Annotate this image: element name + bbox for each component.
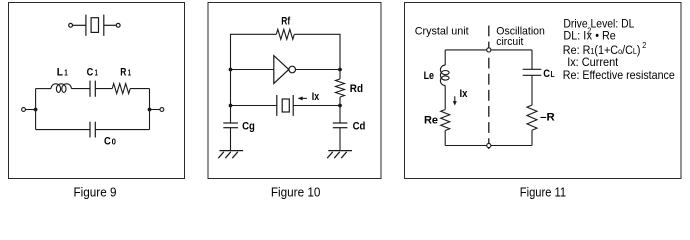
svg-text:Drive Level: DL: Drive Level: DL xyxy=(563,17,634,31)
label L1 xyxy=(57,67,68,79)
svg-text:C: C xyxy=(543,68,550,80)
resistor R1 xyxy=(112,84,130,94)
capacitor CL xyxy=(523,69,542,75)
node crystal row left xyxy=(229,104,233,108)
panel frame Figure 11 xyxy=(405,3,682,179)
wire right vertical branch xyxy=(149,89,151,130)
wire crystal row right xyxy=(293,105,340,107)
svg-text:Le: Le xyxy=(424,70,434,82)
svg-text:Cd: Cd xyxy=(353,120,366,132)
dashed boundary line xyxy=(488,26,490,152)
inverter output bubble xyxy=(289,66,296,73)
svg-text:R: R xyxy=(120,67,126,79)
node inverter output rail xyxy=(338,68,342,72)
svg-text:Ix: Current: Ix: Current xyxy=(567,55,619,69)
label C0 xyxy=(104,136,116,148)
svg-text:Figure 10: Figure 10 xyxy=(271,184,321,199)
svg-text:L: L xyxy=(551,70,555,79)
wire Cd to ground xyxy=(339,128,341,151)
wire node to right terminal xyxy=(150,109,161,111)
arrow Ix (Figure 11, downward) xyxy=(453,96,457,105)
panel frame Figure 9 xyxy=(9,3,185,179)
wire left vertical branch xyxy=(35,89,37,130)
wire -R to bottom rail xyxy=(531,130,533,145)
wire Le to Re xyxy=(444,86,446,110)
capacitor C1 xyxy=(90,81,95,97)
ground (right, Figure 10) xyxy=(327,151,352,159)
svg-text:Figure 9: Figure 9 xyxy=(74,184,117,199)
svg-text:circuit: circuit xyxy=(496,36,523,48)
label Oscillation circuit xyxy=(496,26,545,48)
wire top rail left part xyxy=(231,34,277,69)
svg-text:Ix: Ix xyxy=(460,88,469,100)
label R1 xyxy=(120,67,131,79)
node bottom (open) xyxy=(487,143,491,147)
wire left rail down to Cg xyxy=(230,106,232,124)
resistor -R xyxy=(527,105,537,130)
wire left branch top xyxy=(444,50,446,65)
svg-text:1: 1 xyxy=(64,69,68,78)
wire CL to -R xyxy=(531,75,533,105)
svg-text:Rd: Rd xyxy=(350,83,363,95)
svg-text:1: 1 xyxy=(128,69,132,78)
svg-text:C: C xyxy=(87,67,94,79)
node crystal row right xyxy=(338,104,342,108)
node inverter input rail xyxy=(229,68,233,72)
inductor Le xyxy=(440,65,449,85)
svg-text:Crystal unit: Crystal unit xyxy=(415,26,469,38)
terminal right (Figure 9) xyxy=(160,108,164,112)
svg-text:–R: –R xyxy=(540,112,555,124)
wire C1 to R1 xyxy=(95,88,112,90)
wire inductor to C1 xyxy=(71,88,90,90)
wire top rail (Figure 11) xyxy=(445,49,532,51)
svg-text:Re: Effective resistance: Re: Effective resistance xyxy=(563,68,675,82)
wire Cg to ground xyxy=(230,128,232,151)
wire top rail right part xyxy=(294,34,340,69)
capacitor C0 xyxy=(90,122,95,138)
wire right rail Rd section top xyxy=(339,70,341,80)
ground (left, Figure 10) xyxy=(218,151,243,159)
wire left rail inverter row to crystal row xyxy=(230,70,232,106)
wire left terminal to node xyxy=(25,109,35,111)
terminal left (Figure 9) xyxy=(22,108,26,112)
wire top branch left segment xyxy=(36,88,51,90)
node top (open) xyxy=(487,48,491,52)
wire right branch top xyxy=(531,50,533,69)
wire Re to bottom rail xyxy=(444,131,446,146)
node left junction xyxy=(34,108,38,112)
op-amp inverter U1 triangle xyxy=(274,56,289,84)
wire crystal row left xyxy=(231,105,277,107)
crystal X1 (Figure 10) xyxy=(277,95,293,116)
svg-text:Cg: Cg xyxy=(242,120,255,132)
svg-text:C: C xyxy=(104,136,111,148)
capacitor Cg xyxy=(223,123,238,128)
wire bottom branch right segment xyxy=(95,129,149,131)
wire R1 to right vertical xyxy=(130,88,149,90)
svg-text:Re: Re xyxy=(424,114,438,126)
wire bottom rail (Figure 11) xyxy=(445,145,532,147)
label CL xyxy=(543,68,554,80)
svg-text:Ix: Ix xyxy=(312,91,320,103)
capacitor Cd xyxy=(333,123,348,128)
wire inverter row left xyxy=(231,69,274,71)
crystal Y1 symbol (top of Figure 9) xyxy=(69,15,120,36)
arrow Ix (current direction, Figure 10) xyxy=(298,96,307,100)
label C1 xyxy=(87,67,99,79)
panel frame Figure 10 xyxy=(208,3,381,179)
wire inverter output to right rail xyxy=(296,69,341,71)
resistor Rf xyxy=(276,29,294,39)
wire Rd to crystal row xyxy=(339,97,341,123)
svg-text:Rf: Rf xyxy=(281,16,290,28)
svg-text:1: 1 xyxy=(95,69,99,78)
wire bottom branch left segment xyxy=(36,129,90,131)
svg-text:Figure 11: Figure 11 xyxy=(520,184,566,199)
svg-text:0: 0 xyxy=(112,138,117,147)
node right junction xyxy=(148,108,152,112)
svg-text:L: L xyxy=(57,67,63,79)
resistor Re xyxy=(441,110,450,131)
inductor L1 xyxy=(51,84,71,93)
resistor Rd xyxy=(336,79,345,97)
